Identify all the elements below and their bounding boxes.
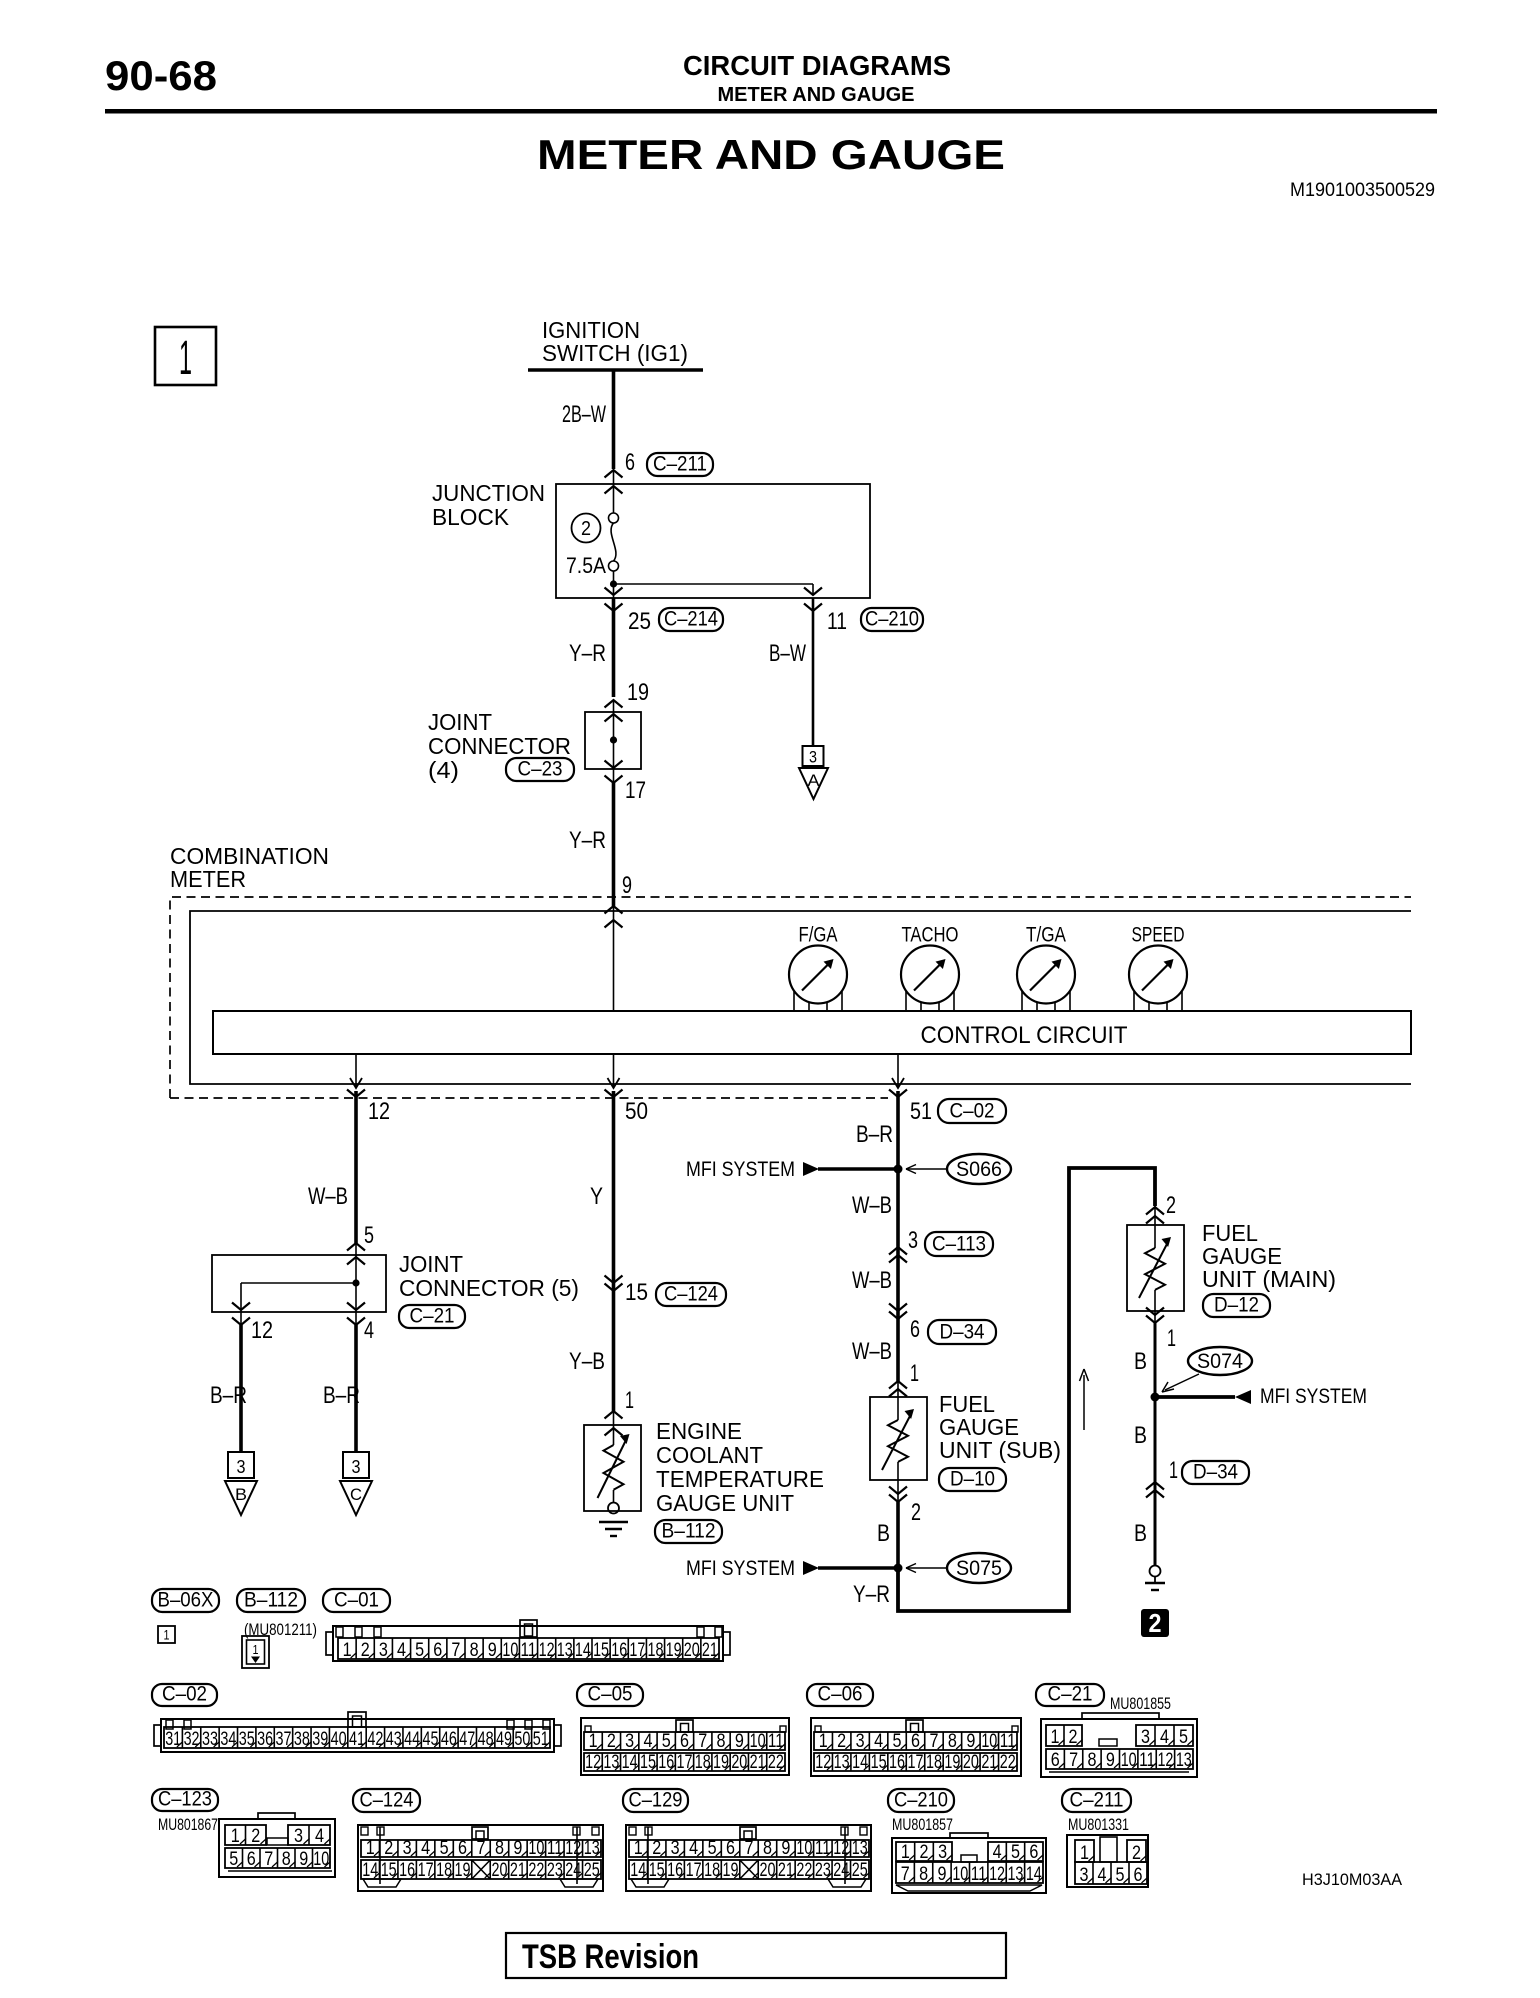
- gauge TACHO: [901, 924, 959, 1012]
- svg-text:Y–R: Y–R: [853, 1581, 890, 1608]
- fuel gauge main entry chevrons: [1146, 1206, 1164, 1248]
- svg-text:1: 1: [1080, 1843, 1089, 1864]
- svg-text:UNIT (SUB): UNIT (SUB): [939, 1437, 1061, 1463]
- svg-text:12: 12: [1157, 1750, 1173, 1771]
- svg-text:(4): (4): [428, 757, 459, 783]
- svg-text:B–112: B–112: [244, 1589, 298, 1612]
- svg-text:12: 12: [989, 1864, 1005, 1885]
- svg-text:3: 3: [403, 1838, 412, 1859]
- connector label C-21 mid: [399, 1305, 465, 1328]
- svg-text:9: 9: [781, 1838, 790, 1859]
- connector label C-06: [807, 1684, 873, 1706]
- svg-text:16: 16: [658, 1752, 674, 1773]
- svg-text:T/GA: T/GA: [1026, 924, 1066, 947]
- svg-text:CONTROL CIRCUIT: CONTROL CIRCUIT: [921, 1022, 1128, 1049]
- connector B-06X pin figure: [158, 1626, 175, 1643]
- junction block exit chevrons pin 25: [605, 584, 623, 611]
- svg-text:15: 15: [649, 1860, 665, 1881]
- svg-text:19: 19: [455, 1860, 471, 1881]
- connector C-124 pinout: [358, 1825, 603, 1891]
- svg-text:3: 3: [379, 1640, 388, 1661]
- svg-text:24: 24: [833, 1860, 849, 1881]
- svg-text:TSB Revision: TSB Revision: [522, 1938, 699, 1976]
- svg-text:12: 12: [368, 1098, 390, 1125]
- svg-text:18: 18: [926, 1752, 942, 1773]
- svg-text:3: 3: [908, 1227, 918, 1254]
- svg-text:10: 10: [1121, 1750, 1137, 1771]
- svg-text:1: 1: [589, 1731, 598, 1752]
- gauge SPEED: [1129, 924, 1187, 1012]
- svg-text:9: 9: [1106, 1750, 1115, 1771]
- terminal box 3 (C): [343, 1452, 369, 1478]
- svg-text:C–113: C–113: [932, 1233, 986, 1256]
- svg-text:21: 21: [778, 1860, 794, 1881]
- svg-text:SPEED: SPEED: [1132, 924, 1185, 947]
- svg-text:3: 3: [625, 1731, 634, 1752]
- svg-text:2: 2: [384, 1838, 393, 1859]
- junction block box: [556, 484, 870, 598]
- connector label C-129: [623, 1789, 688, 1812]
- svg-text:MFI SYSTEM: MFI SYSTEM: [686, 1557, 795, 1580]
- svg-text:21: 21: [750, 1752, 766, 1773]
- svg-text:17: 17: [677, 1752, 693, 1773]
- svg-text:C–02: C–02: [950, 1100, 995, 1123]
- svg-text:14: 14: [622, 1752, 638, 1773]
- svg-text:C–02: C–02: [162, 1683, 207, 1706]
- svg-text:32: 32: [184, 1729, 200, 1750]
- connector label B-06X: [152, 1589, 219, 1612]
- svg-text:S066: S066: [956, 1158, 1002, 1181]
- svg-text:11: 11: [827, 608, 847, 635]
- label pin 25 C-214: [628, 608, 651, 635]
- combination meter entry chevrons pin 9: [605, 906, 623, 1011]
- header rule: [105, 109, 1437, 114]
- svg-text:C–211: C–211: [1070, 1789, 1124, 1812]
- svg-text:3: 3: [809, 748, 817, 767]
- svg-text:CIRCUIT DIAGRAMS: CIRCUIT DIAGRAMS: [683, 50, 951, 81]
- svg-text:METER AND GAUGE: METER AND GAUGE: [537, 131, 1005, 178]
- svg-text:D–34: D–34: [940, 1321, 985, 1344]
- svg-text:11: 11: [547, 1838, 563, 1859]
- svg-text:12: 12: [565, 1838, 581, 1859]
- svg-text:5: 5: [708, 1838, 717, 1859]
- svg-text:2: 2: [837, 1731, 846, 1752]
- svg-text:2: 2: [581, 518, 591, 540]
- svg-text:20: 20: [731, 1752, 747, 1773]
- gauge T/GA: [1017, 924, 1075, 1012]
- svg-text:20: 20: [684, 1640, 700, 1661]
- svg-text:7: 7: [1069, 1750, 1078, 1771]
- svg-text:10: 10: [313, 1849, 329, 1870]
- svg-text:GAUGE UNIT: GAUGE UNIT: [656, 1490, 794, 1516]
- svg-text:7: 7: [929, 1731, 938, 1752]
- engine coolant temperature gauge unit label: [656, 1418, 824, 1516]
- connector label C-123: [152, 1789, 218, 1811]
- connector label D-12: [1203, 1294, 1270, 1317]
- svg-text:22: 22: [1000, 1752, 1016, 1773]
- wire Y-R to combination meter pin 9: [612, 783, 616, 906]
- svg-text:5: 5: [662, 1731, 671, 1752]
- svg-text:15: 15: [640, 1752, 656, 1773]
- svg-text:4: 4: [689, 1838, 698, 1859]
- svg-text:17: 17: [418, 1860, 434, 1881]
- connector label C-211: [647, 453, 713, 476]
- svg-text:2: 2: [1069, 1727, 1078, 1748]
- control circuit exit arrow pin 51: [889, 1054, 907, 1097]
- svg-text:15: 15: [593, 1640, 609, 1661]
- splice node S075: [894, 1564, 903, 1573]
- svg-text:42: 42: [367, 1729, 383, 1750]
- svg-text:5: 5: [415, 1640, 424, 1661]
- svg-text:19: 19: [627, 679, 649, 706]
- wire loop from S075 to fuel gauge main: [898, 1168, 1155, 1611]
- svg-text:6: 6: [625, 449, 635, 476]
- svg-text:2: 2: [911, 1499, 921, 1526]
- svg-text:21: 21: [981, 1752, 997, 1773]
- svg-text:12: 12: [815, 1752, 831, 1773]
- svg-text:JOINT: JOINT: [399, 1251, 463, 1277]
- svg-text:35: 35: [239, 1729, 255, 1750]
- svg-text:TACHO: TACHO: [902, 924, 959, 947]
- svg-text:4: 4: [874, 1731, 883, 1752]
- svg-text:16: 16: [889, 1752, 905, 1773]
- svg-text:1: 1: [1167, 1325, 1176, 1352]
- svg-text:10: 10: [502, 1640, 518, 1661]
- svg-text:JOINT: JOINT: [428, 709, 492, 735]
- svg-text:9: 9: [966, 1731, 975, 1752]
- svg-text:23: 23: [547, 1860, 563, 1881]
- MFI SYSTEM feed upper: [686, 1158, 898, 1181]
- svg-text:C–210: C–210: [894, 1789, 948, 1812]
- connector D-34 right chevrons: [1146, 1482, 1164, 1498]
- wire Y-R junction block to joint connector: [612, 598, 616, 697]
- connector C-123 pinout: [219, 1813, 335, 1877]
- wire W-B from pin 12: [354, 1091, 358, 1243]
- fuel gauge unit (sub) box: [870, 1397, 927, 1480]
- svg-text:13: 13: [557, 1640, 573, 1661]
- svg-text:17: 17: [686, 1860, 702, 1881]
- splice label S066: [947, 1154, 1011, 1184]
- connector C-01 pinout: [326, 1620, 730, 1661]
- svg-text:4: 4: [1160, 1727, 1169, 1748]
- svg-text:ENGINE: ENGINE: [656, 1418, 742, 1444]
- wire 2B-W from ignition switch: [612, 370, 616, 469]
- svg-text:C–214: C–214: [664, 608, 718, 631]
- svg-text:10: 10: [981, 1731, 997, 1752]
- combination meter dashed outline: [170, 897, 1411, 1098]
- wire B-R right: [354, 1325, 358, 1452]
- control circuit box: [213, 1011, 1411, 1054]
- svg-text:8: 8: [919, 1864, 928, 1885]
- control circuit exit arrow pin 50: [605, 1054, 623, 1097]
- svg-text:1: 1: [179, 332, 192, 385]
- svg-text:23: 23: [815, 1860, 831, 1881]
- joint connector (5) exit chevrons pin 4: [347, 1303, 365, 1326]
- wire B-R left: [239, 1325, 243, 1452]
- ground triangle A: [799, 768, 828, 799]
- svg-text:10: 10: [952, 1864, 968, 1885]
- svg-text:6: 6: [910, 1316, 920, 1343]
- MFI SYSTEM feed lower: [686, 1557, 898, 1580]
- svg-text:MU801867: MU801867: [158, 1815, 218, 1834]
- fuel gauge sub exit chevrons: [889, 1487, 907, 1503]
- svg-text:2: 2: [1166, 1192, 1176, 1219]
- svg-text:6: 6: [680, 1731, 689, 1752]
- svg-text:13: 13: [603, 1752, 619, 1773]
- svg-text:25: 25: [852, 1860, 868, 1881]
- connector label C-05: [577, 1684, 643, 1706]
- ECT variable resistor: [604, 1445, 624, 1490]
- connector C-124 chevrons pin 15: [605, 1276, 623, 1292]
- svg-text:25: 25: [628, 608, 651, 635]
- ECT wire to case ground: [613, 1490, 615, 1503]
- svg-text:11: 11: [1000, 1731, 1016, 1752]
- svg-text:3: 3: [938, 1842, 947, 1863]
- svg-text:COOLANT: COOLANT: [656, 1442, 763, 1468]
- svg-text:12: 12: [251, 1317, 273, 1344]
- svg-text:12: 12: [833, 1838, 849, 1859]
- svg-text:C–01: C–01: [334, 1589, 379, 1612]
- joint connector (4) label: [428, 709, 571, 783]
- svg-text:4: 4: [421, 1838, 430, 1859]
- joint connector (5) node: [352, 1279, 359, 1286]
- svg-text:D–12: D–12: [1214, 1294, 1259, 1317]
- splice label S075: [947, 1553, 1011, 1583]
- svg-text:B: B: [235, 1485, 247, 1504]
- fuel gauge sub variable resistor: [888, 1420, 908, 1462]
- svg-text:UNIT (MAIN): UNIT (MAIN): [1202, 1266, 1336, 1292]
- svg-text:8: 8: [470, 1640, 479, 1661]
- connector C-211 pin 6 chevrons: [605, 470, 623, 494]
- connector C-113 chevrons pin 3: [889, 1247, 907, 1263]
- svg-text:M1901003500529: M1901003500529: [1290, 180, 1435, 201]
- svg-text:15: 15: [381, 1860, 397, 1881]
- control circuit exit arrow pin 12: [347, 1054, 365, 1097]
- svg-text:1: 1: [343, 1640, 352, 1661]
- svg-text:90-68: 90-68: [105, 52, 217, 99]
- fuel gauge sub exit wire: [897, 1462, 899, 1502]
- wire inside junction block to right branch: [614, 584, 814, 595]
- connector label C-02 bottom: [152, 1684, 217, 1706]
- connector label D-10: [939, 1468, 1006, 1491]
- svg-text:2: 2: [1149, 1608, 1162, 1638]
- connector C-05 pinout: [581, 1718, 789, 1775]
- svg-text:45: 45: [423, 1729, 439, 1750]
- svg-text:C–06: C–06: [818, 1683, 863, 1706]
- connector D-34 chevrons pin 6: [889, 1304, 907, 1320]
- svg-text:1: 1: [1051, 1727, 1060, 1748]
- svg-text:40: 40: [331, 1729, 347, 1750]
- svg-text:F/GA: F/GA: [799, 924, 838, 947]
- svg-text:3: 3: [352, 1457, 361, 1477]
- svg-text:SWITCH (IG1): SWITCH (IG1): [542, 340, 688, 366]
- svg-text:21: 21: [510, 1860, 526, 1881]
- joint connector (4) node: [610, 736, 617, 743]
- svg-text:C–210: C–210: [865, 608, 919, 631]
- svg-text:C–21: C–21: [410, 1305, 455, 1328]
- svg-text:34: 34: [220, 1729, 236, 1750]
- svg-text:11: 11: [815, 1838, 831, 1859]
- connector C-21 pinout: [1041, 1713, 1197, 1777]
- splice node S074: [1151, 1393, 1160, 1402]
- svg-text:18: 18: [648, 1640, 664, 1661]
- connector label C-113: [925, 1232, 993, 1256]
- svg-text:17: 17: [908, 1752, 924, 1773]
- svg-text:H3J10M03AA: H3J10M03AA: [1302, 1870, 1403, 1889]
- svg-text:Y–R: Y–R: [569, 827, 606, 854]
- svg-text:14: 14: [630, 1860, 646, 1881]
- wire W-B upper right: [896, 1169, 900, 1381]
- svg-text:3: 3: [1141, 1727, 1150, 1748]
- joint connector (4) C-23 box: [585, 700, 641, 769]
- svg-text:8: 8: [717, 1731, 726, 1752]
- svg-text:25: 25: [584, 1860, 600, 1881]
- svg-text:6: 6: [726, 1838, 735, 1859]
- svg-text:MU801857: MU801857: [892, 1815, 953, 1834]
- svg-text:4: 4: [993, 1842, 1002, 1863]
- svg-text:8: 8: [1087, 1750, 1096, 1771]
- svg-text:B–112: B–112: [662, 1520, 716, 1543]
- svg-text:C–124: C–124: [360, 1789, 414, 1812]
- svg-text:10: 10: [750, 1731, 766, 1752]
- svg-text:21: 21: [702, 1640, 718, 1661]
- connector C-211 pinout: [1067, 1835, 1148, 1887]
- svg-text:C–123: C–123: [158, 1788, 212, 1811]
- svg-text:BLOCK: BLOCK: [432, 504, 510, 530]
- svg-text:D–10: D–10: [950, 1468, 995, 1491]
- svg-text:MFI SYSTEM: MFI SYSTEM: [1260, 1385, 1367, 1408]
- svg-text:50: 50: [625, 1098, 648, 1125]
- svg-text:19: 19: [723, 1860, 739, 1881]
- svg-text:Y: Y: [590, 1183, 603, 1210]
- svg-text:CONNECTOR: CONNECTOR: [428, 733, 571, 759]
- svg-text:22: 22: [528, 1860, 544, 1881]
- connector label C-210 bottom: [888, 1789, 954, 1812]
- svg-text:2: 2: [920, 1842, 929, 1863]
- fuel gauge main exit wire: [1154, 1290, 1156, 1323]
- engine coolant temperature gauge unit box: [584, 1425, 641, 1511]
- svg-text:11: 11: [521, 1640, 537, 1661]
- svg-text:44: 44: [404, 1729, 420, 1750]
- svg-text:2: 2: [251, 1826, 260, 1847]
- svg-text:17: 17: [625, 777, 646, 804]
- svg-text:B: B: [877, 1520, 890, 1547]
- svg-text:6: 6: [1029, 1842, 1038, 1863]
- svg-text:2: 2: [607, 1731, 616, 1752]
- connector C-129 pinout: [626, 1825, 871, 1891]
- svg-text:14: 14: [852, 1752, 868, 1773]
- svg-text:10: 10: [796, 1838, 812, 1859]
- svg-text:1: 1: [253, 1642, 259, 1657]
- svg-text:37: 37: [275, 1729, 291, 1750]
- svg-text:20: 20: [759, 1860, 775, 1881]
- body ground right: [1145, 1566, 1165, 1591]
- svg-text:20: 20: [491, 1860, 507, 1881]
- svg-text:1: 1: [901, 1842, 910, 1863]
- svg-text:7: 7: [477, 1838, 486, 1859]
- svg-text:MFI SYSTEM: MFI SYSTEM: [686, 1158, 795, 1181]
- svg-text:C–23: C–23: [518, 758, 563, 781]
- svg-text:18: 18: [704, 1860, 720, 1881]
- svg-text:15: 15: [625, 1279, 648, 1306]
- svg-text:W–B: W–B: [308, 1183, 348, 1210]
- svg-text:7: 7: [901, 1864, 910, 1885]
- fuel gauge unit (main) box: [1127, 1225, 1184, 1311]
- svg-text:4: 4: [643, 1731, 652, 1752]
- svg-text:9: 9: [937, 1864, 946, 1885]
- figure marker 2 (black): [1141, 1608, 1169, 1638]
- connector C-02 pinout: [154, 1712, 561, 1752]
- connector label C-211 bottom: [1062, 1789, 1131, 1812]
- MFI SYSTEM feed right: [1155, 1385, 1367, 1408]
- svg-text:16: 16: [667, 1860, 683, 1881]
- wire B-R from pin 51: [896, 1091, 900, 1169]
- S075 pointer arrow: [906, 1564, 948, 1573]
- connector C-06 pinout: [811, 1718, 1021, 1776]
- svg-text:1: 1: [1169, 1457, 1178, 1484]
- svg-text:5: 5: [1116, 1865, 1125, 1886]
- svg-text:C–211: C–211: [653, 453, 707, 476]
- svg-text:24: 24: [565, 1860, 581, 1881]
- svg-text:19: 19: [944, 1752, 960, 1773]
- svg-text:B–R: B–R: [323, 1382, 360, 1409]
- junction block label: [432, 480, 545, 530]
- terminal box 3 (A): [803, 746, 824, 767]
- svg-text:1: 1: [366, 1838, 375, 1859]
- wire B below fuel sub: [896, 1502, 900, 1568]
- svg-text:11: 11: [1139, 1750, 1155, 1771]
- svg-text:51: 51: [533, 1729, 549, 1750]
- connector label C-124 bottom: [353, 1789, 420, 1812]
- svg-text:1: 1: [231, 1826, 240, 1847]
- connector label C-21 bottom: [1036, 1684, 1104, 1706]
- svg-text:49: 49: [496, 1729, 512, 1750]
- svg-text:31: 31: [165, 1729, 181, 1750]
- svg-text:3: 3: [294, 1826, 303, 1847]
- svg-text:20: 20: [963, 1752, 979, 1773]
- svg-text:43: 43: [386, 1729, 402, 1750]
- connector label D-34 mid: [928, 1320, 996, 1344]
- svg-text:16: 16: [399, 1860, 415, 1881]
- fuse 2 (7.5A) in junction block: [609, 487, 619, 584]
- svg-text:B–R: B–R: [856, 1121, 893, 1148]
- svg-text:1: 1: [819, 1731, 828, 1752]
- connector label B-112 bottom: [237, 1589, 305, 1612]
- connector label C-01: [323, 1589, 390, 1612]
- connector label D-34 right: [1182, 1461, 1249, 1484]
- svg-text:13: 13: [584, 1838, 600, 1859]
- joint connector (4) C-23 entry chevrons: [605, 700, 623, 722]
- svg-text:22: 22: [796, 1860, 812, 1881]
- svg-text:MU801855: MU801855: [1110, 1694, 1171, 1713]
- svg-text:B: B: [1134, 1348, 1147, 1375]
- terminal box 3 (B): [228, 1452, 254, 1478]
- wire B-W to terminal A: [812, 598, 815, 746]
- ECT gauge unit entry chevrons: [605, 1411, 623, 1445]
- connector label C-124 mid: [656, 1283, 726, 1306]
- joint connector (5) label: [399, 1251, 579, 1301]
- fuel gauge unit (main) label: [1202, 1220, 1336, 1292]
- joint connector (4) exit chevrons: [605, 761, 623, 784]
- svg-text:3: 3: [671, 1838, 680, 1859]
- svg-text:B: B: [1134, 1520, 1147, 1547]
- ground triangle C: [340, 1481, 372, 1515]
- svg-text:6: 6: [458, 1838, 467, 1859]
- ignition switch bus bar: [528, 368, 703, 371]
- joint connector (5) entry chevrons: [347, 1243, 365, 1265]
- svg-text:12: 12: [585, 1752, 601, 1773]
- svg-text:38: 38: [294, 1729, 310, 1750]
